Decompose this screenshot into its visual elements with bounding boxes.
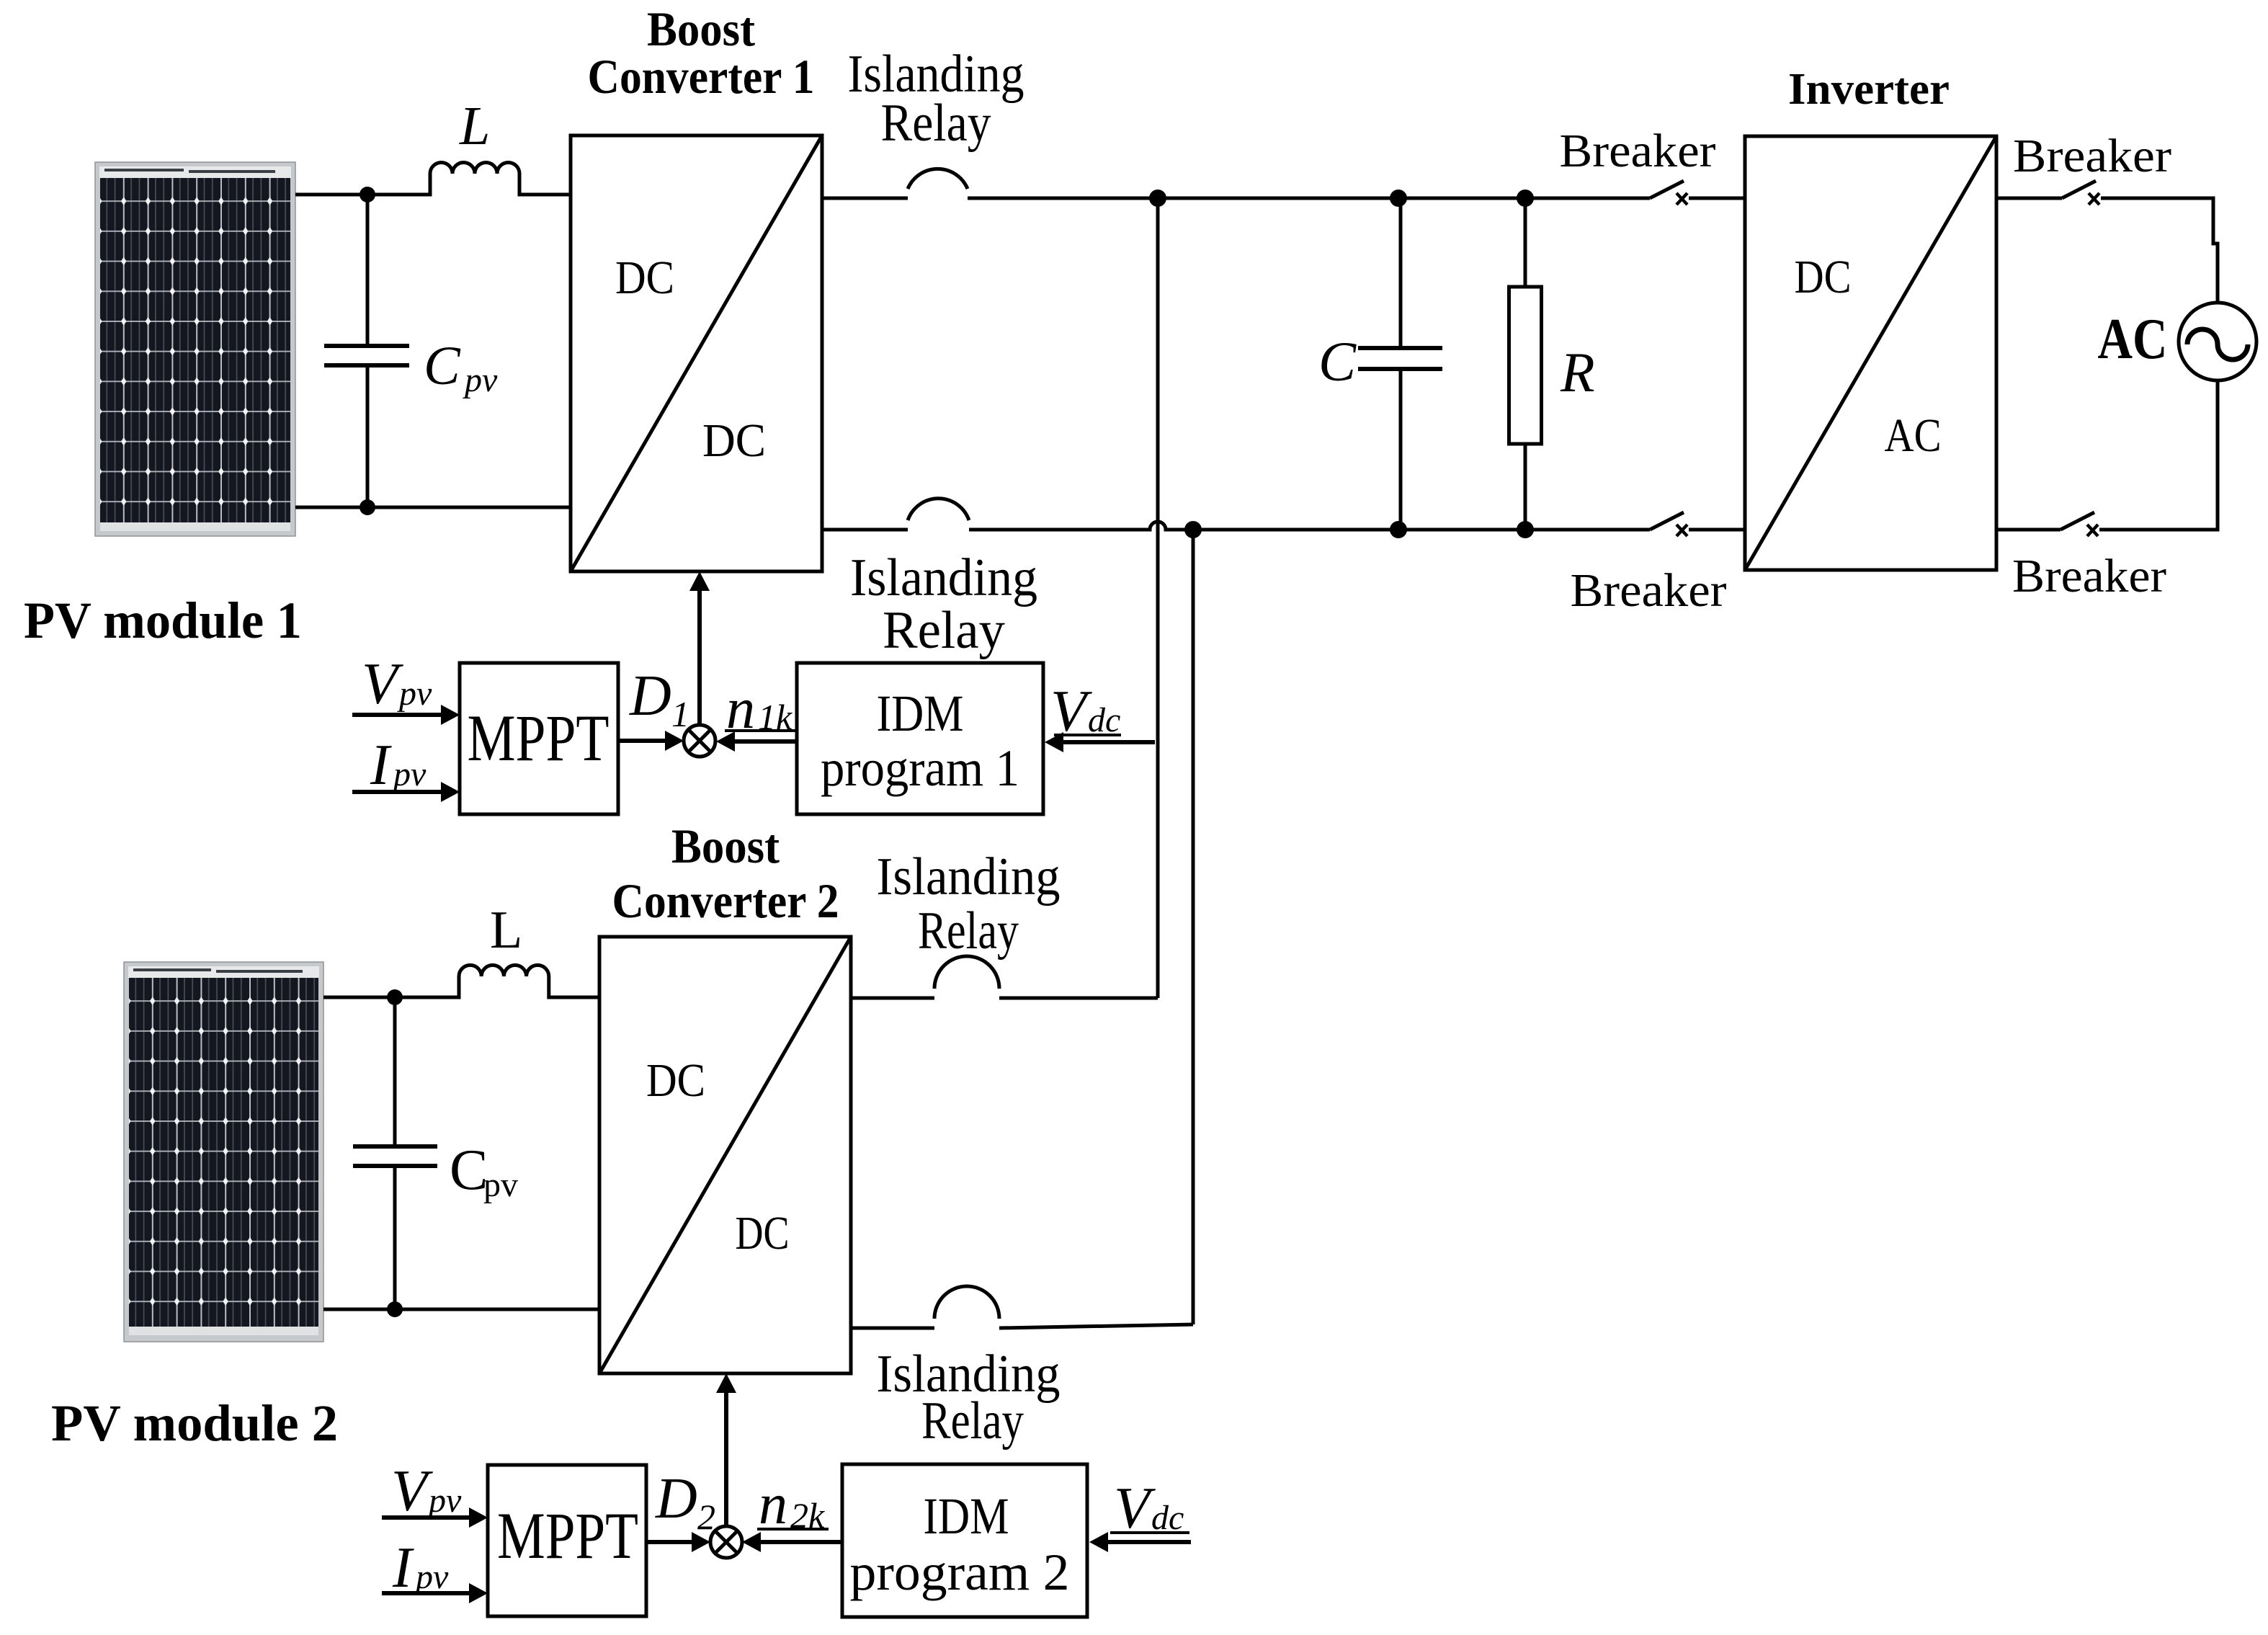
svg-text:pv: pv (397, 674, 432, 713)
svg-text:DC: DC (646, 1054, 705, 1107)
svg-text:D: D (629, 664, 671, 728)
svg-text:pv: pv (414, 1558, 449, 1596)
svg-text:AC: AC (1885, 409, 1942, 462)
svg-text:2: 2 (697, 1497, 715, 1537)
svg-text:Boost: Boost (647, 1, 755, 56)
svg-text:Islanding: Islanding (850, 548, 1037, 607)
svg-text:PV module 2: PV module 2 (51, 1394, 338, 1452)
svg-text:Inverter: Inverter (1788, 65, 1950, 114)
svg-text:Breaker: Breaker (2013, 130, 2171, 182)
svg-text:n: n (726, 677, 755, 741)
svg-text:L: L (459, 96, 490, 156)
svg-text:program 2: program 2 (850, 1543, 1070, 1601)
svg-text:DC: DC (736, 1207, 790, 1260)
svg-text:Breaker: Breaker (1560, 125, 1716, 177)
svg-text:n: n (759, 1473, 787, 1536)
svg-text:D: D (655, 1467, 697, 1531)
svg-text:Relay: Relay (881, 94, 991, 153)
svg-text:V: V (1050, 678, 1092, 744)
svg-text:Boost: Boost (671, 819, 780, 873)
svg-text:V: V (362, 651, 403, 716)
svg-text:V: V (391, 1458, 433, 1523)
svg-text:R: R (1560, 341, 1595, 404)
svg-text:Converter 2: Converter 2 (612, 873, 839, 928)
svg-text:MPPT: MPPT (468, 701, 610, 775)
svg-text:pv: pv (463, 361, 498, 399)
svg-text:dc: dc (1151, 1499, 1184, 1537)
svg-text:DC: DC (702, 414, 766, 467)
svg-text:I: I (370, 734, 392, 797)
svg-text:PV module 1: PV module 1 (24, 592, 302, 649)
svg-text:Relay: Relay (918, 901, 1019, 961)
svg-text:Relay: Relay (921, 1391, 1024, 1451)
svg-text:V: V (1114, 1475, 1156, 1541)
svg-text:1k: 1k (758, 697, 793, 737)
svg-text:pv: pv (391, 755, 427, 793)
svg-text:Breaker: Breaker (2012, 550, 2166, 602)
svg-text:L: L (490, 901, 522, 960)
svg-text:Relay: Relay (883, 601, 1005, 660)
svg-text:2k: 2k (790, 1495, 825, 1536)
svg-text:IDM: IDM (924, 1487, 1009, 1545)
svg-text:DC: DC (1795, 251, 1852, 303)
svg-text:AC: AC (2098, 308, 2168, 371)
svg-text:MPPT: MPPT (497, 1499, 638, 1572)
svg-text:C: C (1318, 330, 1357, 393)
svg-text:1: 1 (671, 694, 689, 734)
svg-text:Converter 1: Converter 1 (588, 49, 815, 104)
svg-text:C: C (424, 336, 461, 396)
svg-text:pv: pv (427, 1482, 462, 1520)
svg-text:IDM: IDM (877, 685, 964, 742)
svg-text:Islanding: Islanding (877, 847, 1061, 906)
svg-text:dc: dc (1088, 701, 1120, 739)
svg-text:I: I (392, 1536, 414, 1600)
svg-text:program 1: program 1 (821, 739, 1019, 797)
svg-text:DC: DC (615, 251, 674, 304)
svg-text:Breaker: Breaker (1571, 564, 1727, 617)
svg-text:pv: pv (483, 1166, 518, 1204)
svg-text:C: C (450, 1139, 488, 1202)
